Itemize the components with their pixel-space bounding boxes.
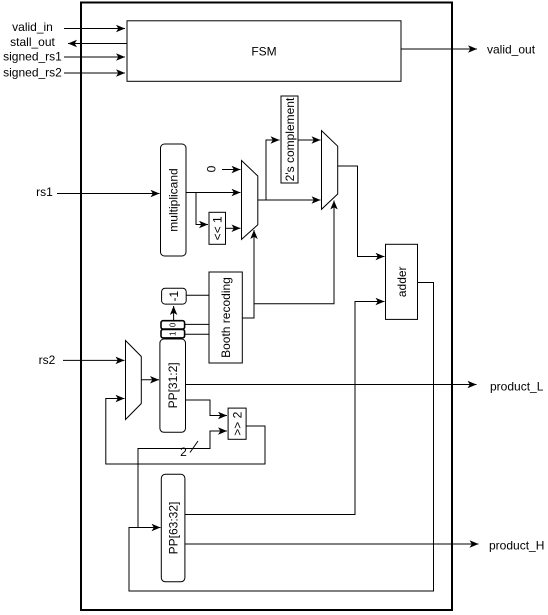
svg-text:Booth recoding: Booth recoding (219, 277, 233, 358)
svg-text:multiplicand: multiplicand (167, 168, 181, 231)
svg-text:product_L: product_L (490, 380, 544, 394)
svg-text:valid_out: valid_out (487, 43, 536, 57)
svg-text:valid_in: valid_in (12, 20, 53, 34)
svg-text:<< 1: << 1 (211, 216, 225, 240)
svg-text:rs2: rs2 (39, 353, 56, 367)
svg-text:2's complement: 2's complement (283, 97, 297, 181)
svg-text:-1: -1 (167, 291, 181, 302)
svg-text:>> 2: >> 2 (230, 411, 244, 435)
svg-text:signed_rs2: signed_rs2 (3, 66, 62, 80)
svg-text:FSM: FSM (251, 45, 276, 59)
svg-text:PP[63:32]: PP[63:32] (166, 502, 180, 555)
svg-text:0: 0 (169, 322, 178, 327)
svg-text:product_H: product_H (489, 539, 544, 553)
svg-text:signed_rs1: signed_rs1 (3, 50, 62, 64)
svg-text:2: 2 (180, 445, 187, 459)
svg-text:stall_out: stall_out (10, 35, 55, 49)
svg-text:PP[31:2]: PP[31:2] (166, 362, 180, 408)
svg-text:1: 1 (169, 331, 178, 336)
svg-text:adder: adder (395, 266, 409, 297)
svg-text:rs1: rs1 (36, 185, 53, 199)
svg-text:0: 0 (205, 165, 219, 172)
